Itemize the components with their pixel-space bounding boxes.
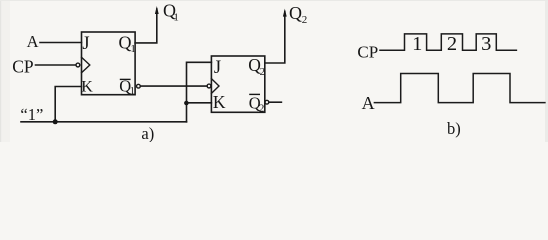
pin label Q1-bar FF1 — [119, 76, 135, 96]
svg-text:1: 1 — [130, 43, 136, 55]
svg-text:CP: CP — [357, 42, 378, 61]
svg-text:A: A — [27, 32, 39, 51]
clock edge triangle FF1 — [82, 57, 90, 73]
pin label Q1 FF1 — [119, 32, 136, 55]
clock bubble FF2 — [207, 84, 211, 88]
junction dot "1" net / K2 — [184, 101, 189, 106]
svg-text:2: 2 — [260, 66, 266, 78]
flip-flop FF2 box — [211, 56, 264, 112]
svg-text:1: 1 — [412, 33, 422, 55]
wire K1 input from "1" net — [55, 87, 81, 122]
svg-text:b): b) — [447, 119, 461, 138]
svg-text:1: 1 — [173, 11, 179, 23]
svg-text:2: 2 — [447, 33, 457, 55]
bubble Q1-bar output — [137, 84, 141, 88]
junction dot "1" net / K1 — [53, 119, 58, 124]
svg-text:K: K — [213, 92, 226, 112]
svg-text:Q: Q — [289, 3, 302, 23]
label Q1 output — [163, 1, 179, 24]
label Q2 output — [289, 3, 307, 26]
arrowhead Q2 — [283, 9, 287, 17]
CP waveform — [380, 34, 516, 50]
wire branch to K2 — [187, 102, 212, 104]
wire Q1 output to arrow — [135, 9, 157, 43]
svg-text:J: J — [214, 58, 221, 78]
wire Q1-bar to CP of FF2 — [140, 85, 207, 87]
wire Q2-bar stub — [269, 101, 282, 103]
svg-text:2: 2 — [259, 102, 265, 114]
pin label Q2 FF2 — [248, 55, 265, 78]
svg-text:3: 3 — [481, 33, 491, 55]
wire A input — [40, 42, 82, 44]
wire Q2 output to arrow — [265, 12, 285, 64]
A waveform — [374, 74, 545, 103]
svg-text:a): a) — [141, 124, 154, 142]
clock edge triangle FF2 — [211, 79, 219, 94]
flip-flop FF1 box — [82, 32, 136, 95]
svg-text:K: K — [81, 78, 93, 95]
wire "1" net horizontal — [21, 121, 187, 123]
arrowhead Q1 — [155, 6, 159, 14]
clock bubble FF1 — [76, 63, 80, 67]
svg-text:J: J — [82, 34, 89, 54]
svg-text:1: 1 — [130, 86, 135, 97]
svg-text:“1”: “1” — [20, 105, 43, 124]
wire CP input — [36, 64, 76, 66]
svg-text:CP: CP — [12, 56, 34, 76]
pin label Q2-bar FF2 — [249, 94, 265, 115]
wire vertical "1" net to J2 — [187, 62, 212, 122]
svg-text:A: A — [362, 93, 375, 113]
bubble Q2-bar output — [265, 100, 269, 104]
svg-text:2: 2 — [302, 14, 308, 26]
